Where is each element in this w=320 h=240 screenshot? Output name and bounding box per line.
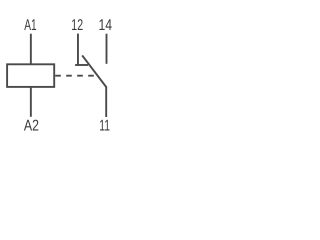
wire common lead 11 <box>105 86 107 117</box>
mechanical link dashed <box>55 75 95 77</box>
wire A2 lead <box>30 87 32 117</box>
svg-text:14: 14 <box>99 17 113 34</box>
svg-text:A1: A1 <box>24 17 36 34</box>
wire A1 lead <box>30 34 32 65</box>
svg-text:A2: A2 <box>24 118 39 135</box>
wire NC lead 12 <box>77 34 79 65</box>
NC fixed contact bar <box>75 64 88 66</box>
wire NO lead 14 <box>106 34 108 64</box>
moving contact lever <box>82 55 106 87</box>
svg-text:12: 12 <box>71 17 83 34</box>
svg-text:11: 11 <box>99 118 110 135</box>
coil K1 <box>7 64 54 87</box>
